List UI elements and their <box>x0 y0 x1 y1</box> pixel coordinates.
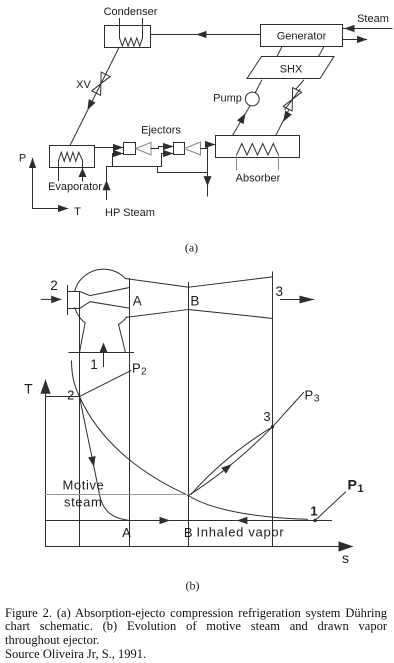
svg-text:(a): (a) <box>185 241 198 255</box>
wire E2 outlet <box>201 148 208 150</box>
svg-text:P: P <box>348 477 357 493</box>
svg-text:1: 1 <box>90 357 98 372</box>
ejector section: suction chamber dome <box>75 269 126 291</box>
condenser <box>104 6 158 48</box>
svg-text:s: s <box>342 550 349 566</box>
svg-text:1: 1 <box>358 483 364 495</box>
ejector section: nozzle top wall <box>80 288 130 296</box>
vertical line 3 <box>272 272 274 547</box>
svg-text:3: 3 <box>263 409 270 424</box>
isobar P3 curve <box>191 427 273 495</box>
svg-text:T: T <box>74 206 81 218</box>
pump <box>213 92 259 106</box>
ejector section: inlet flange <box>67 286 69 315</box>
wire HP branch to ejector E2 <box>162 150 174 167</box>
svg-text:Condenser: Condenser <box>104 6 158 18</box>
svg-text:3: 3 <box>314 393 320 405</box>
ejector section: mixing top wall <box>126 279 189 288</box>
ejector section: nozzle bottom wall <box>80 302 130 309</box>
wire generator-SHX left <box>277 47 282 57</box>
svg-text:Pump: Pump <box>213 93 242 105</box>
ejector section: outlet 3 arrow <box>275 284 314 303</box>
svg-text:T: T <box>24 381 33 397</box>
absorber <box>216 136 300 185</box>
ejector section: nozzle body rect <box>68 292 80 309</box>
vertical line state 2 <box>79 309 81 547</box>
wire HP branch to ejector E1 <box>113 150 124 167</box>
svg-text:1: 1 <box>310 504 317 519</box>
SHX <box>247 57 334 79</box>
svg-text:2: 2 <box>50 278 58 293</box>
svg-text:B: B <box>184 525 193 540</box>
wire vertical drain with arrow <box>204 145 212 197</box>
motive steam level line (grey) <box>46 494 189 496</box>
expansion valve V2 <box>276 80 304 135</box>
wire SHX to pump <box>255 80 261 92</box>
wire HP steam main <box>103 167 162 220</box>
wire generator to condenser <box>151 31 261 38</box>
node 2 tie line <box>46 396 80 398</box>
wire generator-SHX right <box>319 47 325 57</box>
svg-text:2: 2 <box>141 367 147 378</box>
generator <box>261 25 343 47</box>
svg-text:A: A <box>133 294 142 309</box>
inhaled vapor line with arrows <box>46 517 332 525</box>
wire E1 outlet to E2 inlet <box>151 143 174 150</box>
svg-text:XV: XV <box>76 79 91 91</box>
svg-text:Generator: Generator <box>277 31 327 43</box>
wire to absorber inlet <box>205 141 216 148</box>
vertical line B <box>188 283 190 547</box>
svg-text:A: A <box>122 525 131 540</box>
ejector section: mixing bottom wall <box>126 310 188 318</box>
ejector section: diffuser top wall <box>189 277 273 287</box>
svg-text:Absorber: Absorber <box>236 173 281 185</box>
compression line B-3 with arrow <box>189 427 273 496</box>
svg-text:steam: steam <box>64 495 102 510</box>
ejector E1 <box>124 143 152 156</box>
ejector section: inlet 1 baseline <box>69 352 134 354</box>
wire steam in <box>344 25 393 32</box>
svg-text:Evaporator: Evaporator <box>48 181 102 193</box>
sweep curve 2-B-1 <box>80 397 308 520</box>
wire drain branch <box>158 167 208 173</box>
svg-text:HP Steam: HP Steam <box>105 207 155 219</box>
s axis <box>46 541 354 566</box>
evaporator <box>48 146 102 194</box>
svg-text:P: P <box>305 388 314 403</box>
ejector section: funnel left wall <box>80 323 86 353</box>
svg-text:3: 3 <box>275 284 283 299</box>
svg-text:Motive: Motive <box>63 478 105 493</box>
isobar P2 upper segment <box>80 371 132 397</box>
ejector section: funnel right wall <box>119 324 126 352</box>
svg-text:2: 2 <box>67 388 74 403</box>
label P1 <box>348 477 364 496</box>
ejector section: diffuser bottom wall <box>189 310 273 319</box>
label P2 <box>132 361 147 378</box>
P-T axes <box>19 153 81 219</box>
wire evaporator to ejector E1 <box>95 144 124 151</box>
label P3 <box>305 388 320 405</box>
ejector E2 <box>174 142 201 155</box>
isobar P1 segment <box>315 492 346 521</box>
expansion curve 2-A with arrow <box>80 397 130 521</box>
XV valve <box>70 48 119 146</box>
ejector section: inlet 1 arrow <box>90 343 107 373</box>
svg-text:P: P <box>19 153 26 165</box>
svg-text:B: B <box>190 294 199 309</box>
curve above node 2 <box>72 361 80 397</box>
node 3 dot <box>271 425 274 428</box>
ejector section: left shoulder arc <box>75 308 85 323</box>
svg-text:Inhaled vapor: Inhaled vapor <box>197 525 285 540</box>
ejector section: right shoulder arc <box>119 317 127 324</box>
T axis <box>24 379 50 546</box>
isobar P3 upper segment <box>273 393 304 427</box>
svg-text:Ejectors: Ejectors <box>141 125 181 137</box>
motive steam label <box>63 478 105 510</box>
svg-text:Steam: Steam <box>357 13 389 25</box>
svg-text:P: P <box>132 361 141 376</box>
vertical line A <box>129 279 131 547</box>
ejector section: inlet 2 arrow <box>41 278 61 303</box>
svg-text:SHX: SHX <box>280 64 303 76</box>
wire steam out <box>343 36 368 43</box>
caption figure 2 <box>5 607 387 662</box>
wire absorber to pump <box>233 106 251 136</box>
node 1 dot <box>313 519 316 522</box>
svg-text:(b): (b) <box>186 579 200 593</box>
